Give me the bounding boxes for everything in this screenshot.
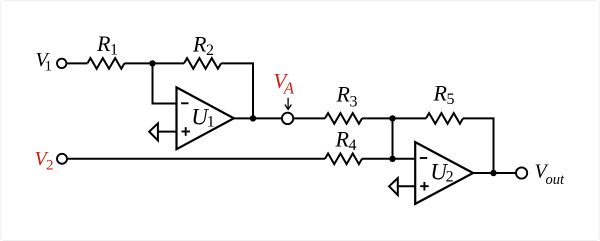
op-amp U2 minus pin (420, 157, 427, 159)
wire R4 to node J4 (362, 158, 393, 160)
op-amp U1 (177, 87, 234, 149)
wire node J1 down to U1 inverting input (152, 63, 154, 103)
arrow pointing to node VA (285, 98, 292, 110)
wire vertical R5 right side down to U2 output (493, 117, 495, 173)
wire V1 to R1 (66, 62, 87, 64)
ground symbol at U1 noninverting input (149, 123, 158, 140)
wire R5 to vertical drop (463, 117, 494, 119)
op-amp U2 (415, 142, 473, 204)
wire V2 to R4 (67, 158, 325, 160)
resistor R3 (325, 113, 362, 124)
wire node J1 to R2 (153, 62, 185, 64)
wire node J3 to R5 (393, 117, 427, 119)
terminal Vout (516, 167, 527, 178)
wire vertical R2 right side down to U1 output (252, 62, 254, 118)
wire node J3 down to node J4 (392, 118, 394, 158)
wire R1 to node J1 (124, 62, 152, 64)
resistor R1 (87, 58, 124, 69)
wire to U1 inverting input (152, 103, 178, 105)
op-amp U2 plus pin (420, 185, 429, 187)
resistor R5 (426, 113, 463, 124)
wire U1 output to node VA (234, 117, 282, 119)
node U2 output junction dot (490, 170, 496, 176)
wire ground to U2 noninverting input (398, 185, 416, 187)
op-amp U1 plus pin (182, 131, 191, 133)
resistor R2 (184, 58, 221, 69)
wire R3 to node J3 (362, 117, 393, 119)
terminal V2 (57, 154, 67, 164)
node U1 output junction dot (250, 115, 256, 121)
wire ground to U1 noninverting input (158, 131, 177, 133)
node J3 junction dot (389, 115, 395, 121)
op-amp U1 minus pin (181, 102, 188, 104)
wire U2 output to Vout (473, 172, 516, 174)
terminal V1 (57, 59, 66, 68)
wire R2 to vertical drop (221, 62, 253, 64)
node J1 junction dot (149, 60, 155, 66)
node J4 junction dot (389, 156, 395, 162)
wire node VA to R3 (293, 117, 325, 119)
ground symbol at U2 noninverting input (389, 178, 398, 195)
wire node J4 to U2 inverting input (393, 158, 416, 160)
node VA terminal circle (282, 113, 293, 124)
resistor R4 (325, 154, 362, 165)
